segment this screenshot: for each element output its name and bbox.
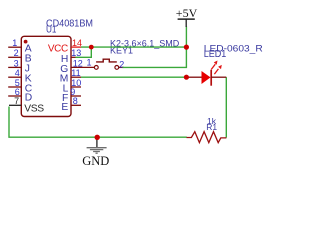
pin number 7 (black) [14,96,19,106]
LED LED1 cathode bar [210,70,212,86]
pin label D [25,92,32,103]
pin 5 stub [8,86,21,88]
switch KEY1 refdes [110,45,133,56]
pin 3 stub [8,66,21,68]
pin number 9 [70,87,75,97]
LED LED1 anode wire [186,76,201,78]
pin number 6 [15,87,20,97]
resistor R1 value 1k [207,116,217,126]
pin 4 stub [8,76,21,78]
pin label F [62,93,68,104]
pin 12 stub + wire to KEY1 [71,66,94,68]
switch KEY1 part label [110,39,180,49]
svg-text:12: 12 [73,58,83,68]
pin 2 stub [8,56,21,58]
pin number 2 [14,48,19,58]
svg-text:1: 1 [86,57,91,67]
svg-text:R1: R1 [206,122,217,132]
ground symbol bars [87,148,107,154]
pin 6 stub [8,95,21,97]
svg-text:11: 11 [71,68,80,78]
LED LED1 triangle [202,71,211,84]
resistor R1 refdes [206,122,217,132]
pin label E [61,102,68,113]
LED LED1 emission arrow 2 [214,65,221,74]
pin label J [25,64,30,75]
pin number 3 [14,58,19,68]
pin label B [25,54,32,65]
power flag +5V bar [178,18,195,20]
pin label H [61,54,68,65]
pin 1 stub [8,46,21,48]
pin 9 stub [71,95,81,97]
ground net label GND [82,154,109,168]
pin 13 stub [71,56,76,58]
pin number 1 [12,38,17,48]
power flag +5V stem [185,19,187,27]
IC refdes U1 [46,25,57,36]
pin label K [25,74,32,85]
switch KEY1 left contact circle [94,66,98,70]
IC U1 body [21,36,71,116]
junction node B (+5V flag junction) [184,45,189,50]
pin number 14 (red) [72,38,82,48]
svg-text:2: 2 [14,48,19,58]
wire +5V flag stem (green part) [185,27,187,48]
pin number 12 [73,58,83,68]
pin label L [63,84,69,95]
LED LED1 part label [204,43,263,54]
pin label VCC (red) [48,43,68,54]
pin number 10 [71,78,81,88]
pin label C [25,83,33,94]
svg-text:8: 8 [73,96,78,106]
IC label CD4081BM [46,17,93,29]
pin 14 stub (red) [71,46,81,48]
svg-text:VCC: VCC [48,43,68,54]
svg-text:VSS: VSS [24,103,44,114]
pin number 5 [15,78,20,88]
wire VSS net: pin7 down and bottom GND rail [9,107,187,138]
switch KEY1 pin number 1 [86,57,91,67]
svg-text:13: 13 [71,48,81,58]
wire pin11 to LED anode node [81,76,186,78]
switch KEY1 pin number 2 [119,60,124,70]
svg-text:E: E [61,102,68,113]
wire pin13 to +5V rail junction [76,47,92,57]
pin label G [60,64,68,75]
pin 10 stub [71,86,81,88]
wire +5V rail: pin14 to +5V flag [81,46,186,48]
pin number 11 [71,68,80,78]
svg-text:U1: U1 [46,25,57,36]
pin 1 marker dot [24,40,28,44]
switch KEY1 left contact wire [119,66,124,68]
junction node A (+5V rail at pin13 riser) [89,45,94,50]
pin label M [60,74,69,85]
pin label A [25,44,32,55]
pin 7 stub (VSS, black) [9,104,21,106]
svg-text:4: 4 [15,68,20,78]
svg-text:GND: GND [82,154,109,168]
wire LED cathode down to resistor R1 [225,77,227,137]
LED LED1 refdes [204,49,227,60]
power net label +5V [176,6,198,20]
switch KEY1 actuator bar [96,59,117,62]
svg-text:1: 1 [12,38,17,48]
pin label VSS (black) [24,103,44,114]
svg-text:7: 7 [14,96,19,106]
svg-text:3: 3 [14,58,19,68]
switch KEY1 right contact circle [115,66,119,70]
wire KEY1 pin2 to +5V vertical [123,47,187,67]
junction node D (GND tap) [95,135,100,140]
pin number 4 [15,68,20,78]
svg-text:LED1: LED1 [204,49,227,60]
pin 11 stub [71,76,81,78]
pin 8 stub [71,104,81,106]
ground symbol stem [96,137,98,147]
resistor R1 zigzag [187,132,227,143]
svg-text:D: D [25,92,32,103]
svg-text:14: 14 [72,38,82,48]
svg-text:+5V: +5V [176,6,198,20]
pin number 13 [71,48,81,58]
LED LED1 emission arrow 1 [211,61,217,70]
LED LED1 cathode wire [211,76,226,78]
pin number 8 [73,96,78,106]
junction node C (LED anode) [184,75,189,80]
